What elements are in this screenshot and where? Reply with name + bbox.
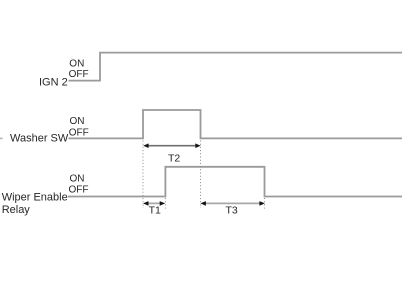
wire Washer SW waveform [69, 110, 402, 138]
wire Wiper Enable Relay waveform [68, 167, 402, 197]
dimension arrow T3 shaft [204, 202, 263, 204]
dimension arrow T3 left head [200, 201, 206, 206]
svg-text:OFF: OFF [69, 185, 89, 196]
svg-text:Washer SW: Washer SW [10, 132, 69, 144]
svg-text:Relay: Relay [2, 204, 31, 216]
svg-text:ON: ON [70, 116, 85, 127]
dimension arrow T2 left head [143, 143, 148, 148]
svg-text:T3: T3 [226, 205, 238, 217]
svg-text:Wiper Enable: Wiper Enable [2, 192, 68, 204]
dimension arrow T2 shaft [147, 145, 197, 147]
svg-text:OFF: OFF [69, 69, 89, 80]
dimension arrow T1 left head [143, 201, 149, 206]
svg-text:OFF: OFF [69, 127, 89, 138]
svg-text:T2: T2 [168, 153, 180, 165]
wire IGN 2 waveform [69, 53, 402, 81]
svg-text:IGN 2: IGN 2 [39, 77, 68, 89]
svg-text:ON: ON [69, 59, 84, 70]
guide dotted line at washer rise x=143 [142, 141, 144, 209]
guide dotted line at washer fall x=200.5 [200, 141, 202, 209]
wire Washer SW left edge stub [0, 137, 3, 139]
guide dotted line at relay fall x=264.5 [264, 198, 266, 209]
svg-text:ON: ON [70, 174, 85, 185]
guide dotted line at relay rise x=165.4 [164, 198, 166, 209]
dimension arrow T1 right head [160, 201, 166, 206]
dimension arrow T1 shaft [146, 202, 163, 204]
svg-text:T1: T1 [149, 204, 161, 216]
dimension arrow T2 right head [195, 143, 200, 148]
dimension arrow T3 right head [259, 201, 265, 206]
